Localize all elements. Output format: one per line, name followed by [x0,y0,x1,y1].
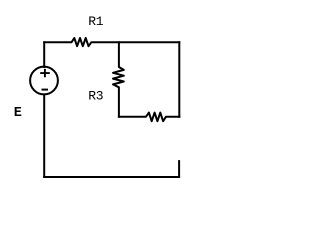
svg-text:E: E [14,106,22,121]
resistor R1 [44,38,179,46]
wire: left lead from top rail down to source (+) terminal [43,42,45,67]
wire: right rail from top-right corner down to resistor branch [178,42,180,116]
wire: from source (-) terminal down the left side [43,95,45,178]
wire: bottom rail [44,176,179,178]
svg-text:R1: R1 [88,14,104,29]
resistor R2 (bottom of inner loop) with leads to right rail [119,113,179,122]
plus sign inside source [40,69,50,77]
minus sign inside source [42,89,49,91]
voltage source E (circle) [30,67,58,95]
resistor R3 (vertical) with leads from top rail tee to bottom corner [113,42,124,116]
wire: bottom-right open stub [178,161,180,177]
svg-text:R3: R3 [88,89,103,104]
